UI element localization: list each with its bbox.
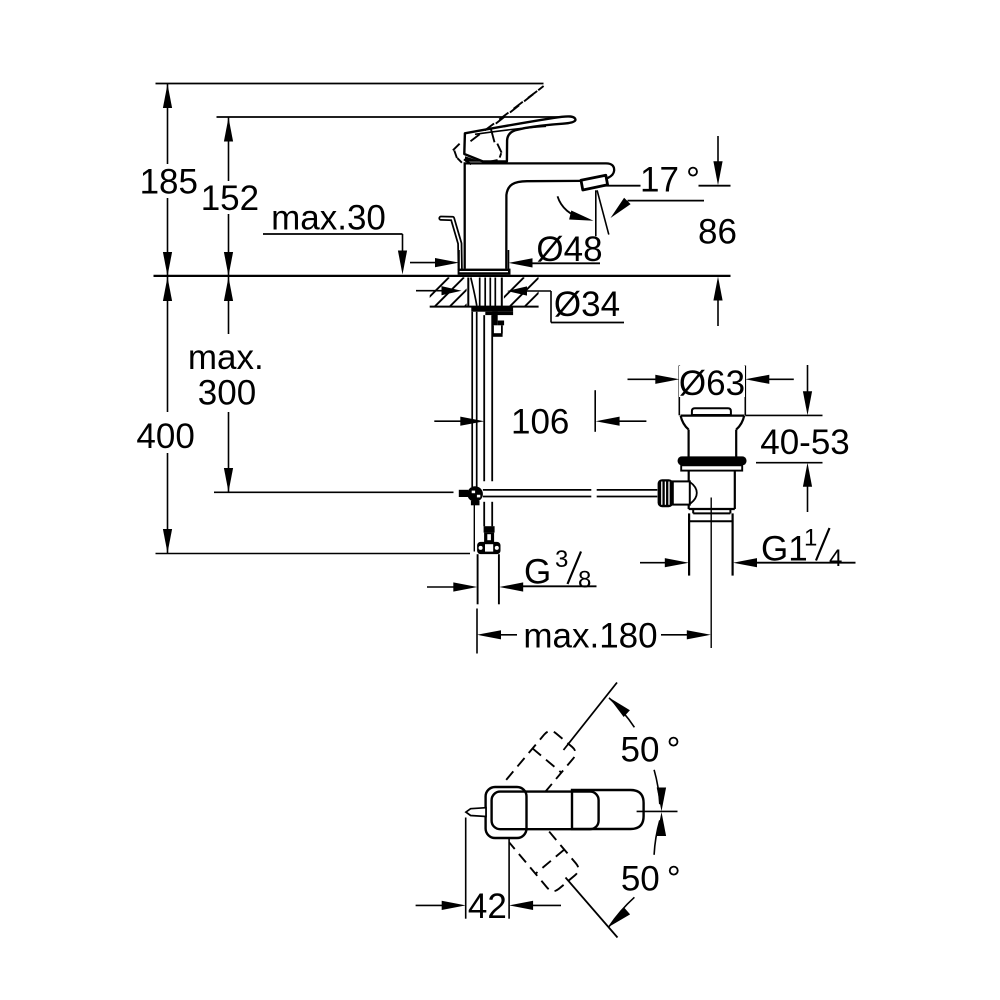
svg-text:17 °: 17 ° — [640, 161, 700, 200]
dimension max.30 — [263, 199, 407, 275]
hose below connector — [478, 554, 499, 604]
valve body — [688, 471, 690, 509]
dimension 86 — [698, 136, 737, 326]
svg-text:50 °: 50 ° — [621, 859, 681, 898]
G 3/8 hose connector — [477, 526, 500, 554]
dimension diameter 63 — [628, 364, 794, 415]
dimension diameter 34 — [416, 285, 624, 324]
dashed raised lever (side view) — [453, 86, 544, 164]
handle top view solid — [486, 787, 644, 838]
faucet body (side view) — [465, 163, 614, 268]
svg-text:G1: G1 — [761, 530, 808, 569]
linkage housing — [673, 481, 690, 504]
dimension 400 — [136, 277, 470, 554]
dimension 185 — [140, 84, 198, 276]
svg-text:400: 400 — [136, 417, 194, 456]
dimension 50 degrees upper — [609, 698, 680, 812]
centerline — [637, 810, 678, 812]
svg-text:Ø63: Ø63 — [679, 364, 745, 403]
dimension 40-53 — [745, 365, 849, 512]
svg-text:3: 3 — [555, 546, 568, 573]
svg-text:Ø48: Ø48 — [536, 230, 602, 269]
svg-text:1: 1 — [804, 525, 817, 552]
dimension diameter 48 — [410, 230, 603, 269]
svg-text:max.30: max.30 — [271, 199, 386, 238]
collar — [692, 509, 694, 513]
svg-text:106: 106 — [511, 403, 569, 442]
horizontal linkage rod — [483, 490, 657, 497]
faucet shank through counter — [468, 278, 502, 307]
pop-up pull rod (side view) — [441, 218, 460, 269]
dimension 106 — [434, 390, 646, 442]
extension line 185 top — [156, 83, 544, 85]
pull rod below counter — [472, 312, 477, 487]
svg-text:max.180: max.180 — [523, 616, 657, 655]
svg-text:185: 185 — [140, 162, 198, 201]
pull rod lower end — [473, 502, 475, 552]
svg-text:300: 300 — [198, 374, 256, 413]
svg-text:50 °: 50 ° — [621, 730, 681, 769]
50 degree boundary line lower — [566, 878, 618, 938]
spout outlet (mousseur) — [581, 175, 608, 190]
svg-text:G: G — [524, 553, 551, 592]
dashed handle rotated down 50 — [509, 818, 581, 894]
dimension max.300 — [188, 277, 454, 492]
tailpipe — [688, 513, 690, 575]
knurled knob — [658, 479, 674, 507]
dashed handle rotated up 50 — [506, 728, 578, 804]
extension line 152 top — [217, 116, 566, 118]
drain pop-up waste assembly — [658, 408, 747, 648]
pop-up linkage ball joint — [459, 486, 483, 505]
dimension max.180 — [477, 609, 711, 656]
svg-text:8: 8 — [578, 567, 591, 594]
svg-text:152: 152 — [201, 179, 259, 218]
svg-text:4: 4 — [829, 545, 842, 572]
countertop hatching — [420, 277, 569, 306]
O-ring seal — [678, 456, 747, 465]
base plate — [458, 269, 511, 275]
countertop surface line — [154, 275, 731, 277]
svg-text:40-53: 40-53 — [760, 423, 850, 462]
dimension 17 degrees — [558, 161, 731, 237]
dimension 50 degrees lower — [609, 812, 681, 927]
50 degree boundary line upper — [564, 683, 618, 751]
plug cap — [692, 408, 731, 415]
svg-text:86: 86 — [698, 213, 737, 252]
washer — [681, 465, 742, 470]
mounting nut and stud — [471, 307, 513, 337]
dimension G 1 1/4 — [640, 525, 856, 573]
drain centerline — [710, 498, 712, 649]
svg-text:max.: max. — [188, 338, 264, 377]
dimension 42 — [416, 818, 561, 926]
svg-text:42: 42 — [468, 887, 507, 926]
lever handle (side view) — [464, 116, 575, 161]
dimension G 3/8 — [427, 546, 597, 594]
countertop bottom line — [430, 306, 539, 308]
supply hose below counter — [484, 315, 492, 526]
dimension 152 — [200, 118, 260, 277]
svg-text:Ø34: Ø34 — [554, 285, 620, 324]
indicator pin — [466, 808, 486, 817]
flange — [681, 415, 745, 417]
